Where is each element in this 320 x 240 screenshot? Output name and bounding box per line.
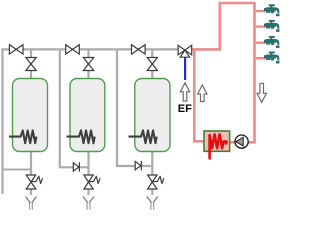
arrow up red branch flow xyxy=(198,85,207,102)
arrow down faucet main flow xyxy=(257,83,266,102)
pump P1 xyxy=(235,135,248,148)
heater coil in tank T2 xyxy=(67,130,95,143)
vent Y2 xyxy=(83,197,94,210)
valve V3 header bowtie xyxy=(132,45,146,54)
valve V4 vertical bowtie tank1 xyxy=(26,58,36,71)
faucet F4 xyxy=(264,52,280,64)
tank T3 xyxy=(135,79,170,152)
relief valve RV1 with spring xyxy=(26,175,42,189)
wire red pipe heat exchanger to pump xyxy=(230,141,236,144)
wire module3 feed drop and connector xyxy=(117,49,152,166)
relief valve RV2 with spring xyxy=(84,175,100,189)
heat exchanger coil and drain xyxy=(210,134,227,159)
wire main gray header pipe with left drop xyxy=(3,49,180,194)
arrow up EF flow xyxy=(180,83,189,101)
wire blue EF supply line xyxy=(184,55,186,80)
valve V6 vertical bowtie tank3 xyxy=(147,58,157,71)
wire module2 feed drop and connector xyxy=(60,49,89,167)
tank T1 xyxy=(13,79,48,152)
valve V2 header bowtie xyxy=(66,45,80,54)
wire faucet stub 3 xyxy=(254,42,267,44)
wire faucet stub 1 xyxy=(254,10,267,12)
relief valve RV3 with spring xyxy=(148,175,164,189)
wire module1 bottom connector xyxy=(3,169,32,171)
faucet F3 xyxy=(264,36,280,48)
wire tank2 top stub xyxy=(87,49,89,80)
wire faucet stub 4 xyxy=(254,57,267,59)
wire tank3 bottom drain pipe xyxy=(151,151,153,195)
wire tank1 top stub xyxy=(30,49,32,80)
svg-text:EF: EF xyxy=(178,103,192,115)
wire red hot-water loop top xyxy=(192,3,255,142)
faucet F2 xyxy=(264,20,280,32)
tank T2 xyxy=(70,79,105,152)
faucet F1 xyxy=(264,4,280,16)
valve V5 vertical bowtie tank2 xyxy=(83,58,93,71)
wire faucet stub 2 xyxy=(254,25,267,27)
valve V7 three-way valve xyxy=(178,45,192,57)
heater coil in tank T1 xyxy=(9,130,36,143)
heat exchanger HX1 xyxy=(204,131,230,151)
check valve CV3 module3 xyxy=(135,161,141,170)
wire red branch to heat exchanger xyxy=(194,49,205,142)
vent Y3 xyxy=(147,197,158,210)
wire tank2 bottom drain pipe xyxy=(87,151,89,195)
valve V1 header bowtie xyxy=(9,45,23,54)
check valve CV2 module2 xyxy=(73,162,79,171)
wire tank3 top stub xyxy=(151,49,153,80)
wire tank1 bottom drain pipe xyxy=(30,151,32,195)
vent Y1 xyxy=(26,197,37,210)
heater coil in tank T3 xyxy=(129,130,157,143)
